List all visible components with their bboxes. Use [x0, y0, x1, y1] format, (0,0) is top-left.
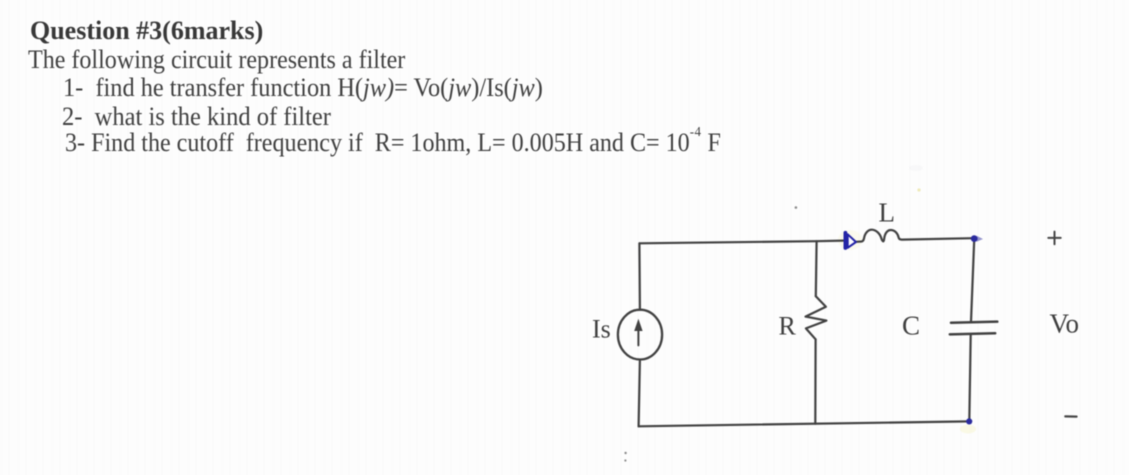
svg-text:Vo: Vo — [1050, 308, 1080, 338]
svg-text:R: R — [779, 311, 797, 340]
svg-text:Is: Is — [592, 315, 611, 344]
svg-text:C: C — [902, 310, 920, 340]
svg-text:L: L — [879, 197, 896, 227]
